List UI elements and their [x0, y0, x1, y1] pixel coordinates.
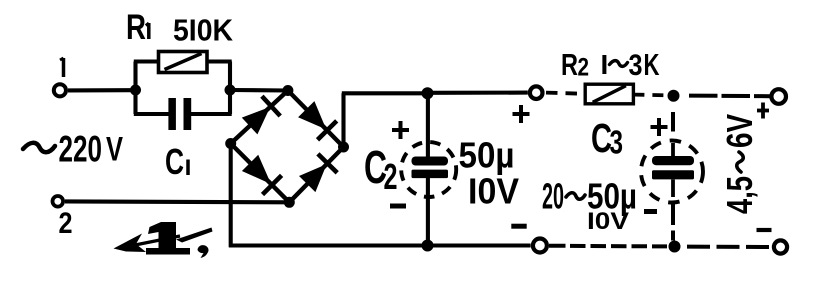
terminal plus middle: [530, 86, 543, 99]
svg-text:2: 2: [59, 207, 73, 240]
wire dashed node C down to C3: [671, 112, 675, 132]
bridge right node: [338, 142, 349, 153]
node A (left junction of R1/C1): [130, 85, 141, 96]
terminal minus middle: [533, 239, 547, 253]
wire dashed node C to output plus terminal: [689, 94, 770, 99]
bridge bottom node: [284, 197, 295, 208]
svg-text:I0V: I0V: [587, 208, 629, 235]
wire dashed to R2: [546, 93, 585, 94]
label + output: [757, 109, 769, 113]
figure number 1: [146, 222, 190, 255]
svg-text:6V: 6V: [719, 114, 760, 148]
node C (R2 output junction): [668, 90, 680, 102]
svg-text:4,5: 4,5: [719, 176, 760, 214]
diode VD4 (bridge bottom-right arm): [289, 147, 343, 202]
node C2 bottom: [422, 240, 434, 252]
label + middle: [513, 112, 530, 116]
resistor R2: [585, 84, 633, 104]
svg-text:R: R: [561, 47, 578, 82]
svg-text:I: I: [601, 49, 609, 80]
wire C2 top lead: [426, 93, 430, 157]
label + of C2: [392, 128, 409, 132]
wire plus rail C2 to middle terminal: [428, 91, 528, 95]
svg-text:20: 20: [542, 176, 564, 217]
svg-text:2: 2: [384, 156, 398, 197]
figure pointer arrow: [130, 236, 180, 246]
wire C2 bottom lead: [426, 178, 430, 246]
capacitor C2: [412, 157, 449, 166]
wire bridge right node up: [341, 93, 345, 147]
svg-text:I0V: I0V: [468, 171, 519, 212]
wire dashed C3 to bottom junction: [671, 203, 675, 225]
resistor R1: [159, 52, 208, 73]
label - of C3: [644, 209, 657, 214]
svg-text:2: 2: [578, 54, 590, 82]
wire minus rail C2 to middle terminal: [428, 243, 531, 247]
wire minus rail left segment: [229, 243, 428, 247]
bridge left node: [225, 138, 236, 149]
label - of C2: [390, 204, 406, 209]
node C2 top: [422, 87, 434, 99]
capacitor C1: [168, 98, 176, 130]
capacitor C3: [652, 156, 694, 165]
svg-text:K: K: [644, 47, 660, 82]
terminal 2: [53, 196, 64, 207]
wire C1 branch: [133, 88, 137, 114]
comma: [198, 245, 209, 258]
terminal output plus: [771, 89, 786, 104]
svg-text:220: 220: [59, 129, 103, 170]
svg-text:3: 3: [629, 49, 643, 82]
diode VD1 (bridge top-left arm): [231, 91, 288, 144]
label - middle: [511, 224, 526, 229]
svg-text:5I0K: 5I0K: [173, 13, 234, 48]
node D (C3 bottom junction): [669, 241, 681, 253]
label ~220V: [23, 143, 55, 152]
diode VD2 (bridge top-right arm): [288, 91, 344, 148]
label 1: [62, 58, 66, 77]
diode VD3 (bridge bottom-left arm): [231, 144, 290, 203]
wire node B to bridge top: [230, 88, 288, 93]
wire dashed R2 to node C: [633, 93, 666, 98]
svg-text:C: C: [165, 141, 184, 182]
svg-text:V: V: [106, 131, 123, 169]
label 4.5~6V: [719, 114, 760, 214]
terminal output minus: [774, 240, 787, 253]
svg-text:R: R: [126, 8, 146, 47]
bridge top node: [282, 85, 293, 96]
wire plus rail to C2 top: [342, 91, 428, 95]
wire bridge left node down to minus rail: [229, 144, 233, 248]
node B (right junction of R1/C1): [225, 85, 236, 96]
terminal 1: [54, 84, 66, 96]
wire dashed minus rail to output: [549, 244, 566, 248]
wire terminal1 to node A: [68, 88, 133, 92]
wire terminal2 to bridge bottom node: [65, 199, 289, 204]
label + of C3: [651, 125, 668, 129]
wire R1 branch: [133, 62, 137, 91]
label - output: [757, 228, 772, 232]
svg-text:3: 3: [610, 124, 624, 161]
svg-text:50µ: 50µ: [459, 135, 515, 176]
